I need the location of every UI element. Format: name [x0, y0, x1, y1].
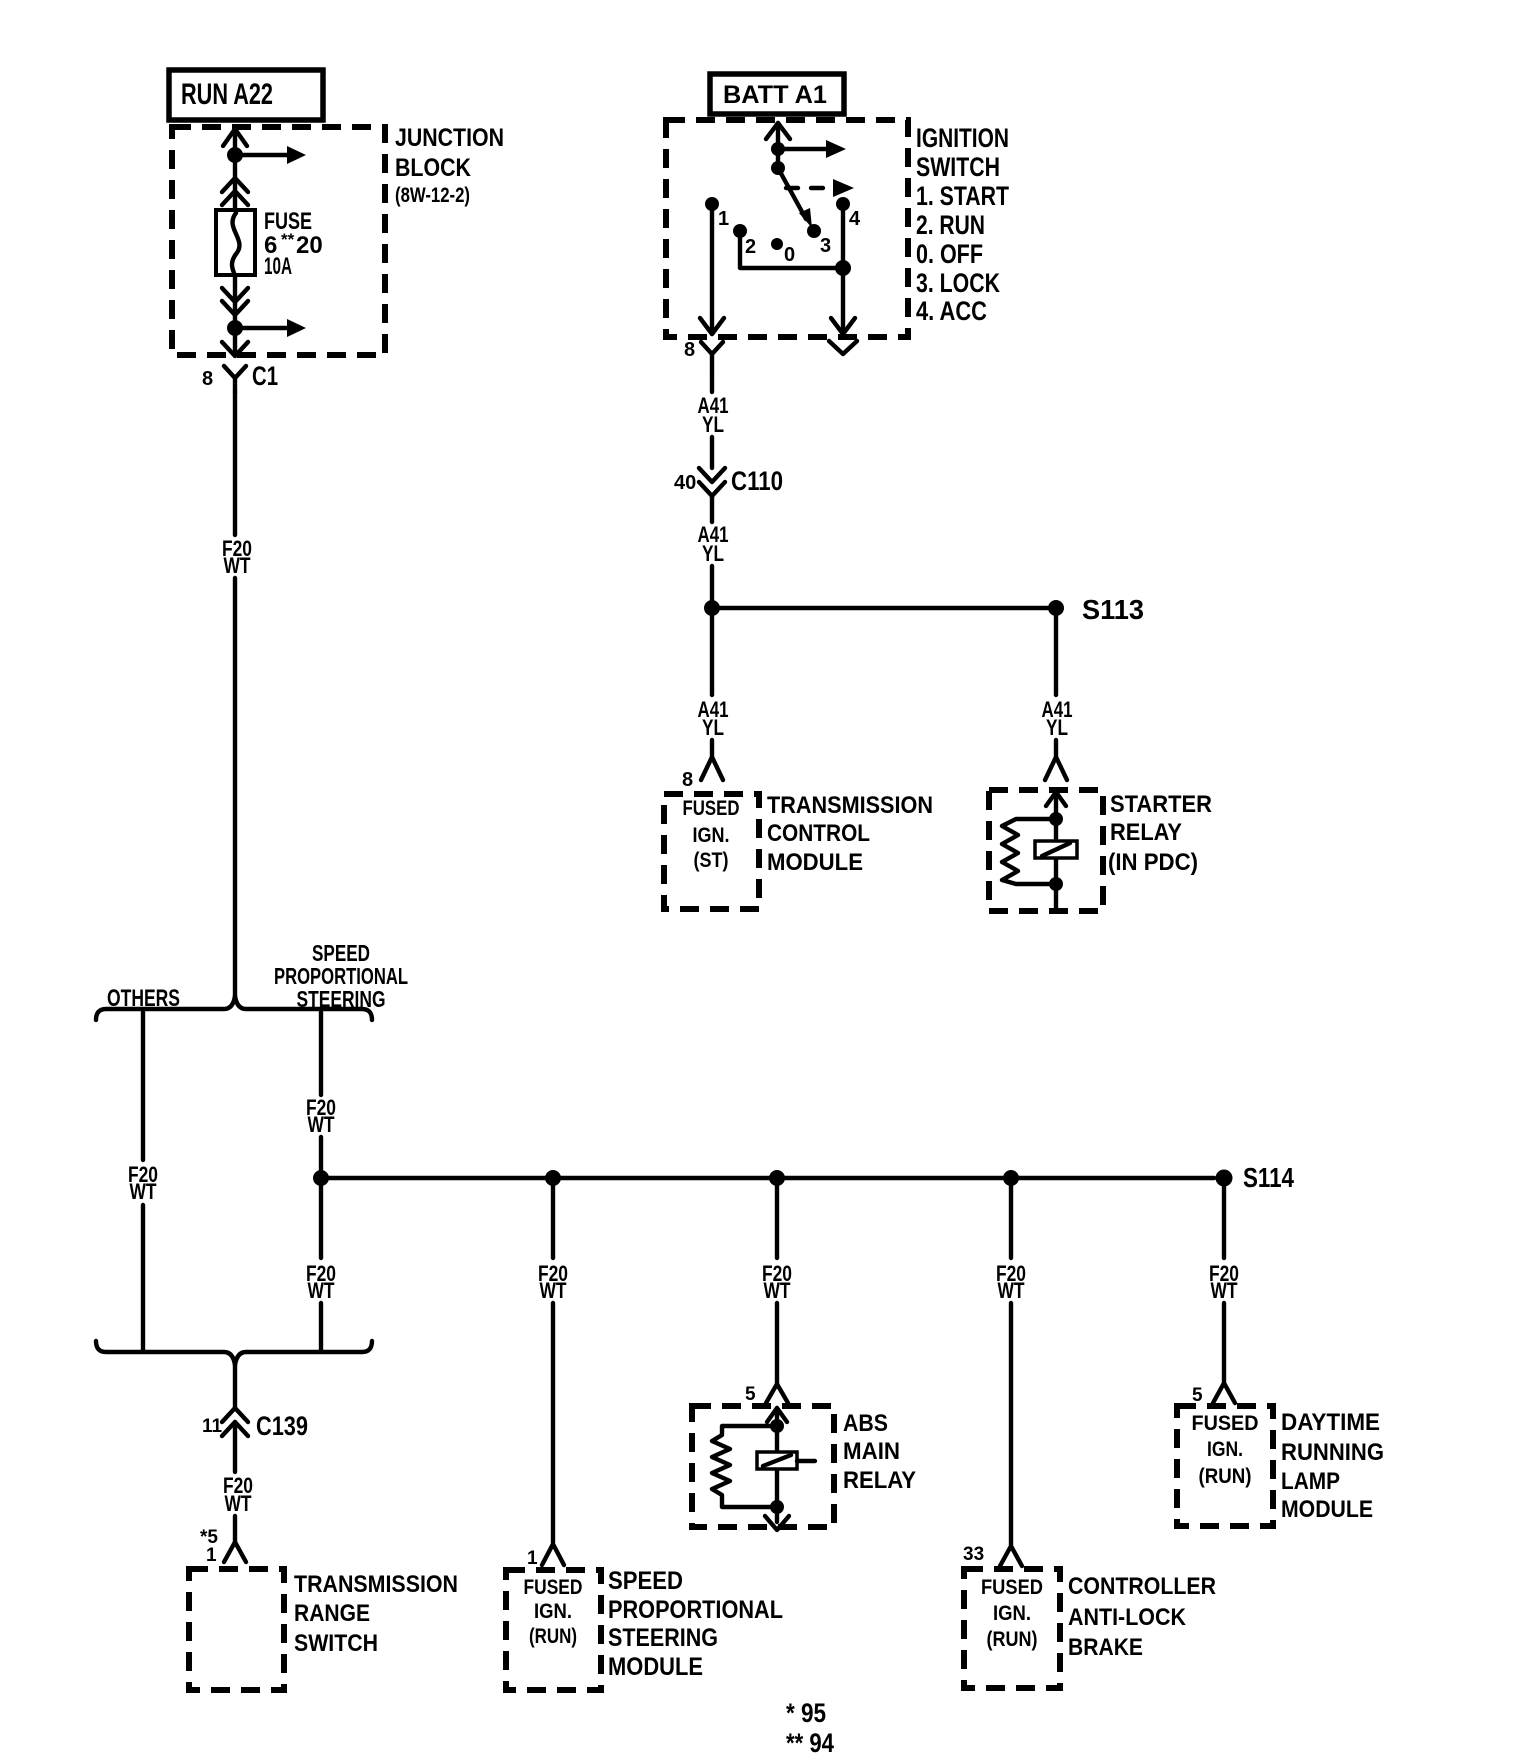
- svg-text:33: 33: [963, 1544, 984, 1565]
- svg-text:FUSED: FUSED: [683, 797, 740, 820]
- svg-text:* 95: * 95: [786, 1698, 826, 1728]
- svg-text:1: 1: [527, 1548, 538, 1569]
- starter relay node (bottom): [1049, 877, 1063, 891]
- wire from merge brace to C139: [233, 1364, 237, 1408]
- pin 5 fork into daytime running lamp module: [1192, 1383, 1235, 1406]
- ABS relay coil feed wire with up arrowhead: [767, 1408, 787, 1507]
- svg-text:IGN.: IGN.: [693, 824, 730, 847]
- wire down to splice: [710, 566, 714, 608]
- wire F20 WT from C1 down to split: [233, 392, 237, 535]
- wire label F20 WT (DRL drop): [1209, 1261, 1239, 1303]
- svg-text:RUN A22: RUN A22: [181, 78, 273, 111]
- starter relay coil winding (resistor): [1002, 819, 1056, 884]
- node: bus tap at steering branch: [313, 1170, 329, 1186]
- wire to C110: [710, 437, 714, 468]
- wire exiting ABS relay with down chevron: [765, 1507, 789, 1530]
- svg-text:FUSED: FUSED: [524, 1576, 583, 1599]
- svg-text:BLOCK: BLOCK: [395, 154, 471, 182]
- wire right branch (speed proportional steering): [319, 1012, 323, 1170]
- svg-text:RUNNING: RUNNING: [1281, 1439, 1384, 1466]
- wire label A41 YL (TCM branch): [698, 697, 729, 740]
- ABS relay node (top): [770, 1419, 784, 1433]
- wire label F20 WT (others branch): [128, 1162, 158, 1204]
- pin 33 fork into controller anti-lock brake: [963, 1544, 1022, 1566]
- split brace (one feed to OTHERS / SPEED PROPORTIONAL STEERING): [96, 996, 372, 1020]
- svg-text:WT: WT: [998, 1278, 1025, 1303]
- daytime running lamp module name label: [1281, 1409, 1384, 1523]
- svg-text:TRANSMISSION: TRANSMISSION: [767, 792, 933, 819]
- fuse value label FUSE 6 **20 10A: [264, 208, 323, 280]
- starter relay coil core symbol: [1035, 841, 1077, 858]
- svg-text:8: 8: [684, 339, 695, 361]
- node: bus tap to speed proportional steering module: [545, 1170, 561, 1186]
- node: bus tap to ABS main relay: [769, 1170, 785, 1186]
- merge brace into transmission range switch feed: [96, 1341, 372, 1365]
- svg-text:S113: S113: [1082, 594, 1144, 625]
- wire from contact 2 to junction under contact 4: [740, 231, 851, 276]
- svg-text:8: 8: [682, 769, 693, 791]
- pin 8 fork into transmission control module: [682, 740, 723, 791]
- controller anti-lock brake name label: [1068, 1573, 1216, 1661]
- svg-text:JUNCTION: JUNCTION: [395, 124, 504, 152]
- svg-text:WT: WT: [540, 1278, 567, 1303]
- contact 2: [733, 224, 756, 258]
- controller anti-lock brake dashed box (FUSED IGN. (RUN)): [964, 1569, 1060, 1688]
- svg-text:**: **: [281, 230, 295, 249]
- connector pin 8 of ignition switch: [684, 339, 723, 368]
- bus wire from steering branch to S114: [321, 1176, 1214, 1181]
- node: battery feed tap with arrow: [771, 140, 846, 158]
- exit chevron below switch box (ACC feed): [829, 341, 857, 354]
- starter relay dashed box: [989, 790, 1103, 911]
- starter relay node (top): [1049, 812, 1063, 826]
- wire from BATT A1 into switch with up arrowhead: [766, 123, 790, 168]
- svg-text:3: 3: [820, 235, 831, 257]
- ABS main relay dashed box: [692, 1406, 834, 1527]
- svg-text:3. LOCK: 3. LOCK: [916, 268, 1000, 298]
- wire label A41 YL: [698, 393, 729, 437]
- svg-text:RELAY: RELAY: [843, 1467, 916, 1494]
- svg-text:0. OFF: 0. OFF: [916, 239, 983, 269]
- svg-text:C1: C1: [252, 361, 278, 391]
- svg-text:5: 5: [1192, 1385, 1203, 1406]
- wire left branch (others): [141, 1012, 145, 1350]
- contact 1: [705, 197, 729, 230]
- ABS relay node (bottom): [770, 1500, 784, 1514]
- pin 1 fork into steering module: [527, 1544, 564, 1569]
- wire exit chevron at junction block bottom: [222, 334, 248, 356]
- wire below C110: [710, 496, 714, 522]
- svg-text:C139: C139: [256, 1411, 308, 1441]
- svg-text:STARTER: STARTER: [1110, 791, 1212, 818]
- splice S114: [1216, 1162, 1295, 1193]
- svg-text:40: 40: [674, 472, 696, 494]
- wire from RUN A22 into junction block with up arrowhead: [223, 129, 247, 155]
- svg-text:ABS: ABS: [843, 1410, 888, 1437]
- svg-text:RELAY: RELAY: [1110, 819, 1182, 846]
- wire from contact 1 to pin 8 exit with down arrowhead: [700, 204, 724, 334]
- wire label A41 YL (below C110): [698, 522, 729, 566]
- svg-text:PROPORTIONAL: PROPORTIONAL: [608, 1596, 783, 1624]
- branch name SPEED PROPORTIONAL STEERING: [274, 940, 408, 1012]
- svg-text:IGN.: IGN.: [1207, 1438, 1243, 1461]
- node: lower feed tap with arrow: [227, 319, 306, 337]
- switch wiper pivot node: [771, 161, 785, 175]
- svg-text:FUSED: FUSED: [1192, 1412, 1259, 1435]
- svg-text:LAMP: LAMP: [1281, 1468, 1340, 1495]
- transmission control module name label: [767, 792, 933, 876]
- node: bus tap to controller anti-lock brake: [1003, 1170, 1019, 1186]
- fuse F6/F20 10A: [216, 210, 255, 275]
- svg-text:WT: WT: [224, 553, 251, 578]
- svg-text:SWITCH: SWITCH: [916, 152, 1000, 182]
- svg-text:WT: WT: [130, 1179, 157, 1204]
- contact 3: [807, 224, 831, 257]
- svg-text:YL: YL: [702, 715, 724, 740]
- svg-text:MODULE: MODULE: [1281, 1496, 1373, 1523]
- transmission range switch dashed box: [189, 1569, 284, 1690]
- svg-text:5: 5: [745, 1384, 756, 1405]
- svg-text:CONTROL: CONTROL: [767, 820, 870, 847]
- svg-text:ANTI-LOCK: ANTI-LOCK: [1068, 1604, 1187, 1631]
- wire below bus on steering branch: [319, 1186, 323, 1350]
- wire label F20 WT (to transmission range switch): [223, 1473, 253, 1516]
- svg-text:WT: WT: [764, 1278, 791, 1303]
- svg-text:1. START: 1. START: [916, 181, 1009, 211]
- svg-text:8: 8: [202, 368, 213, 390]
- svg-text:S114: S114: [1243, 1162, 1294, 1193]
- svg-text:1: 1: [206, 1545, 217, 1566]
- wire label F20 WT (lower right branch): [306, 1261, 336, 1303]
- svg-text:C110: C110: [731, 466, 783, 496]
- svg-text:BATT A1: BATT A1: [723, 81, 827, 109]
- svg-text:MODULE: MODULE: [767, 849, 863, 876]
- svg-text:BRAKE: BRAKE: [1068, 1634, 1143, 1661]
- svg-text:WT: WT: [225, 1491, 252, 1516]
- wire to speed proportional steering module: [551, 1186, 555, 1542]
- svg-text:** 94: ** 94: [786, 1728, 834, 1758]
- wire label F20 WT (steering module drop): [538, 1261, 568, 1303]
- svg-text:2. RUN: 2. RUN: [916, 210, 985, 240]
- ignition switch name label and positions: [916, 123, 1009, 326]
- wire label F20 WT (upper right branch): [306, 1095, 336, 1137]
- wire continues to split brace: [233, 578, 237, 997]
- splice S113: [704, 594, 1144, 625]
- svg-text:YL: YL: [702, 412, 724, 437]
- svg-text:(RUN): (RUN): [987, 1628, 1038, 1651]
- svg-text:MODULE: MODULE: [608, 1653, 703, 1681]
- svg-text:FUSED: FUSED: [981, 1576, 1043, 1599]
- svg-text:STEERING: STEERING: [297, 986, 386, 1012]
- pin 5 fork into ABS main relay: [745, 1384, 788, 1405]
- connector chevrons (double, down): [222, 288, 248, 315]
- svg-text:IGN.: IGN.: [993, 1602, 1031, 1625]
- wire label F20 WT: [222, 536, 252, 578]
- wire label F20 WT (CAB drop): [996, 1261, 1026, 1303]
- svg-text:SWITCH: SWITCH: [294, 1630, 378, 1657]
- svg-text:(RUN): (RUN): [1199, 1465, 1252, 1488]
- switch wiper arm toward position 3: [778, 168, 812, 228]
- svg-text:(8W-12-2): (8W-12-2): [395, 184, 470, 207]
- svg-text:YL: YL: [1046, 715, 1068, 740]
- wire to controller anti-lock brake: [1009, 1186, 1013, 1545]
- svg-text:20: 20: [296, 232, 323, 259]
- svg-text:OTHERS: OTHERS: [107, 985, 180, 1012]
- svg-text:RANGE: RANGE: [294, 1600, 370, 1627]
- transmission range switch name label: [294, 1571, 458, 1657]
- ABS main relay name label: [843, 1410, 916, 1494]
- speed proportional steering module dashed box (FUSED IGN. (RUN)): [506, 1570, 601, 1690]
- connector C1 pin 8: [202, 361, 278, 392]
- ABS relay coil winding (resistor): [712, 1426, 777, 1507]
- svg-text:0: 0: [784, 244, 795, 266]
- dashed travel arrow: [786, 179, 854, 197]
- svg-text:WT: WT: [308, 1278, 335, 1303]
- svg-text:(RUN): (RUN): [529, 1625, 577, 1648]
- svg-text:(ST): (ST): [694, 849, 729, 872]
- ignition switch dashed box: [666, 120, 908, 337]
- pin *5 1 fork into transmission range switch: [200, 1516, 246, 1566]
- wire from relay coil to box bottom: [1054, 884, 1058, 909]
- wire below C139: [233, 1422, 237, 1472]
- svg-text:TRANSMISSION: TRANSMISSION: [294, 1571, 458, 1598]
- connector label box RUN A22: [169, 70, 323, 120]
- starter relay coil feed wire with up arrowhead: [1046, 792, 1066, 884]
- svg-text:2: 2: [745, 236, 756, 258]
- svg-text:IGNITION: IGNITION: [916, 123, 1009, 153]
- connector C139 pin 11 (double chevron up): [202, 1408, 308, 1441]
- svg-text:4: 4: [849, 208, 861, 230]
- svg-text:SPEED: SPEED: [608, 1567, 683, 1595]
- contact 0: [771, 238, 795, 266]
- ABS relay coil core symbol: [757, 1452, 815, 1469]
- wire from S113 to starter relay: [1054, 616, 1058, 695]
- svg-text:4. ACC: 4. ACC: [916, 296, 987, 326]
- svg-text:CONTROLLER: CONTROLLER: [1068, 1573, 1216, 1600]
- wire label A41 YL (starter relay branch): [1042, 697, 1073, 740]
- svg-text:11: 11: [202, 1416, 223, 1437]
- svg-text:DAYTIME: DAYTIME: [1281, 1409, 1380, 1436]
- svg-text:MAIN: MAIN: [843, 1438, 900, 1465]
- wire to ABS main relay: [775, 1186, 779, 1384]
- contact 4: [836, 197, 861, 230]
- wire A41 YL from switch: [710, 368, 714, 392]
- connector chevrons (double, up): [222, 178, 248, 205]
- junction block name label: [395, 124, 504, 207]
- wire from S114 to daytime running lamp module: [1222, 1187, 1226, 1382]
- transmission control module dashed box (FUSED IGN. (ST)): [664, 794, 759, 909]
- svg-text:WT: WT: [308, 1112, 335, 1137]
- wire to transmission control module: [710, 616, 714, 695]
- svg-text:YL: YL: [702, 541, 724, 566]
- svg-text:1: 1: [718, 208, 729, 230]
- node: upper feed tap with arrow: [227, 146, 306, 164]
- fork into starter relay: [1045, 740, 1067, 780]
- connector C110 pin 40 (double chevron down): [674, 466, 783, 496]
- wire below fuse: [233, 275, 237, 328]
- wire from contact 4 down to exit with down arrowhead: [831, 204, 855, 334]
- svg-text:(IN PDC): (IN PDC): [1108, 849, 1198, 876]
- speed proportional steering module name label: [608, 1567, 783, 1681]
- daytime running lamp module dashed box (FUSED IGN. (RUN)): [1177, 1406, 1273, 1526]
- svg-text:10A: 10A: [264, 253, 292, 280]
- svg-text:IGN.: IGN.: [534, 1600, 572, 1623]
- wire label F20 WT (ABS drop): [762, 1261, 792, 1303]
- connector label box BATT A1: [710, 74, 844, 114]
- starter relay name label: [1108, 791, 1212, 876]
- junction block dashed outline: [172, 127, 385, 355]
- wire to fuse: [233, 162, 237, 210]
- svg-text:STEERING: STEERING: [608, 1624, 718, 1652]
- svg-text:WT: WT: [1211, 1278, 1238, 1303]
